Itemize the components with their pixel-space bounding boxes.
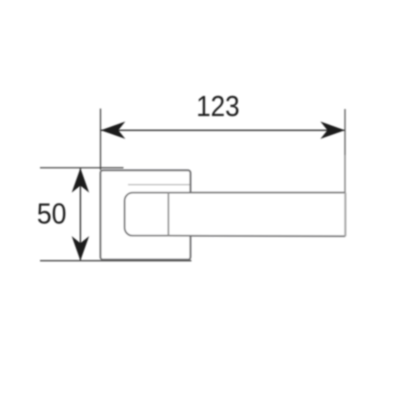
123-dim right extension line upper segment	[344, 109, 346, 155]
neck / lever joint divider line	[167, 193, 169, 236]
123-dim right extension line lower segment	[344, 155, 346, 193]
123 right arrowhead	[320, 122, 345, 139]
50 dimension line	[79, 168, 81, 261]
lever bar bottom edge	[168, 235, 345, 238]
handle neck (rounded collar)	[125, 193, 169, 236]
faint inner detail line above neck	[128, 184, 190, 186]
50-dim top extension line	[40, 167, 124, 169]
lever bar top edge	[168, 192, 345, 194]
50 top arrowhead	[72, 168, 89, 193]
123 dimension line	[101, 129, 345, 131]
50 bottom arrowhead	[72, 236, 89, 261]
handle lever bar	[168, 193, 345, 236]
50-dim bottom extension line	[40, 260, 191, 262]
svg-text:123: 123	[196, 91, 239, 123]
123-dim left extension line	[100, 109, 102, 170]
lever bar right end edge	[344, 193, 346, 237]
square rose plate	[101, 170, 191, 259]
123 left arrowhead	[101, 122, 126, 139]
svg-text:50: 50	[37, 198, 67, 230]
